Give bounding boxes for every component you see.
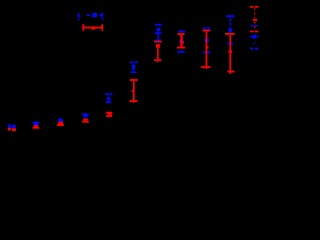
point b red marker — [12, 128, 16, 131]
point a blue marker — [8, 124, 11, 127]
point k red errorbar — [225, 34, 235, 74]
point e blue errorbar — [82, 114, 89, 117]
point j blue errorbar — [203, 28, 211, 52]
point i blue errorbar — [177, 32, 185, 52]
point a red marker — [8, 128, 11, 131]
legend red solid entry — [83, 24, 102, 30]
point e red errorbar — [82, 119, 89, 122]
point g red errorbar — [129, 80, 138, 103]
point b blue marker — [12, 125, 16, 128]
point j red errorbar — [201, 31, 210, 70]
legend blue dashed entry — [78, 13, 103, 20]
point c red marker and cap — [33, 125, 40, 128]
point d blue marker and cap — [58, 118, 63, 120]
point i red errorbar — [177, 34, 185, 48]
point l blue dashed errorbar — [249, 26, 259, 49]
point c blue cap and marker — [33, 123, 40, 126]
point l red dashed errorbar — [250, 7, 260, 32]
point k blue errorbar — [226, 16, 234, 43]
point f blue errorbar — [105, 94, 112, 102]
point d red marker and cap — [57, 122, 64, 125]
point f red errorbar — [106, 113, 113, 117]
point g blue errorbar — [130, 62, 138, 72]
point h red errorbar — [154, 42, 162, 63]
point h blue errorbar — [155, 25, 162, 41]
